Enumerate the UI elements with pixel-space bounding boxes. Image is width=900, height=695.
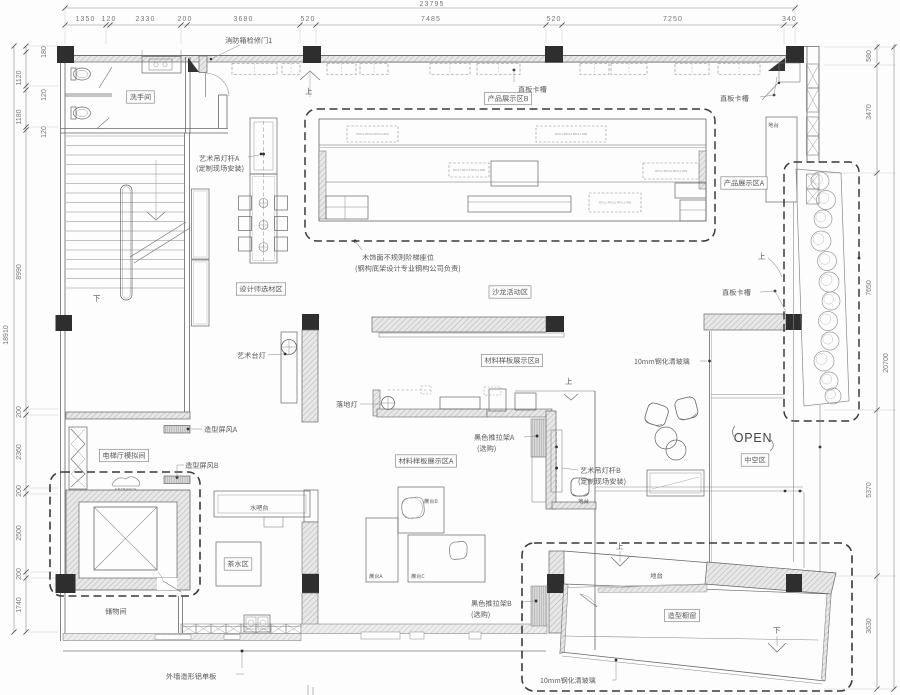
planter window dashed boundary xyxy=(784,162,859,421)
label 茶水区 xyxy=(224,558,252,570)
glass line B 10mm xyxy=(709,331,711,562)
leader island steps note xyxy=(354,240,357,243)
label 10mm钢化清玻璃 right xyxy=(635,358,690,364)
exterior finish band right xyxy=(301,624,547,634)
label 10mm钢化清玻璃 bottom xyxy=(541,677,596,683)
label 落地灯 xyxy=(336,401,357,408)
pedestal 展台A xyxy=(366,518,398,582)
label 外墙造形铝单板 xyxy=(166,673,216,680)
void line D xyxy=(819,405,821,573)
dimension chain right xyxy=(876,44,878,689)
void horizontal lines lower xyxy=(595,486,803,488)
bottom tick marks xyxy=(307,685,309,695)
plants xyxy=(811,172,829,190)
screen zigzag xyxy=(69,427,87,489)
label 造型屏风A xyxy=(204,426,237,433)
island shelf line 1 xyxy=(319,144,706,146)
stair center stringer xyxy=(121,185,133,300)
exterior skin line xyxy=(63,650,546,652)
svg-text:18910: 18910 xyxy=(3,325,10,345)
pedestal 展台C xyxy=(408,535,485,582)
armchair 1 xyxy=(643,401,670,428)
door slots right band xyxy=(361,632,400,639)
svg-text:3470: 3470 xyxy=(866,104,873,120)
svg-text:180: 180 xyxy=(41,46,48,58)
label 艺术吊灯杆A xyxy=(199,155,239,162)
leader 造型屏风B xyxy=(176,476,179,479)
sofa dashed cushions xyxy=(421,386,431,394)
window inner lines xyxy=(563,636,818,640)
svg-text:XPCL1 RPCL2 RPCL1 RPE: XPCL1 RPCL2 RPCL1 RPE xyxy=(453,168,486,172)
label 洗手间 xyxy=(127,91,155,103)
sofa tables xyxy=(440,397,480,409)
round tables xyxy=(655,427,677,449)
svg-text:340: 340 xyxy=(782,16,797,23)
column M2 xyxy=(302,314,319,330)
toilet 2 xyxy=(74,107,91,119)
label 造型橱窗 xyxy=(665,609,700,621)
label 木饰面不规则阶梯座位 xyxy=(362,254,433,261)
wall below stair xyxy=(66,412,190,419)
island platform outline xyxy=(319,119,706,221)
column M1 xyxy=(56,315,73,331)
floor lamp xyxy=(382,397,395,410)
label 设计师选材区 xyxy=(236,283,285,295)
stair treads xyxy=(66,135,184,137)
label 地台 small xyxy=(578,498,588,503)
label 下 stair xyxy=(93,295,100,301)
planter bed tilted xyxy=(796,169,849,406)
door swing window xyxy=(580,594,597,607)
svg-text:5370: 5370 xyxy=(866,482,873,498)
svg-text:120: 120 xyxy=(41,126,48,138)
svg-text:1740: 1740 xyxy=(16,597,23,613)
svg-text:23795: 23795 xyxy=(420,1,445,8)
counter below wall xyxy=(379,333,564,337)
label 材料样板展示区B xyxy=(481,354,542,366)
white rect below rack A xyxy=(532,457,546,502)
label 沙龙活动区 xyxy=(489,286,531,298)
label 地台 window xyxy=(650,573,662,579)
svg-text:2360: 2360 xyxy=(16,444,23,460)
exterior finish band left xyxy=(63,634,301,641)
pendant light track B xyxy=(551,430,562,492)
wall left exterior xyxy=(60,46,62,641)
up arrow window xyxy=(616,543,623,549)
shaped screen B xyxy=(164,476,190,484)
wall top exterior xyxy=(65,56,786,63)
tea table xyxy=(216,542,261,586)
corner recess xyxy=(779,63,800,82)
svg-text:1350: 1350 xyxy=(76,16,96,23)
wall middle segment B xyxy=(372,317,546,332)
toilet 1 xyxy=(74,68,91,80)
dimension chain top xyxy=(65,24,795,26)
up arrow at top wall xyxy=(300,71,320,80)
label 艺术台灯 xyxy=(237,352,265,359)
label 材料样板展示区A xyxy=(396,455,457,467)
stall door 2 xyxy=(97,118,109,129)
column B3 xyxy=(547,574,564,593)
door slots left band xyxy=(155,635,191,640)
svg-text:8990: 8990 xyxy=(16,264,23,280)
designer table xyxy=(250,174,277,263)
elevator door gap xyxy=(157,578,177,590)
washroom partition wall vertical xyxy=(185,57,187,133)
svg-text:XPCL1 RPCL2 RPCL1 RPE: XPCL1 RPCL2 RPCL1 RPE xyxy=(555,132,588,136)
platform 地台 right xyxy=(766,117,797,202)
leader 直板卡槽 3 xyxy=(774,290,777,293)
up arrow near wall C xyxy=(758,253,765,259)
extension lines right xyxy=(824,46,896,48)
dimension line total 20700 xyxy=(893,44,895,689)
svg-text:520: 520 xyxy=(301,16,316,23)
storage wall xyxy=(178,596,180,633)
svg-text:7485: 7485 xyxy=(421,16,441,23)
armchair 2 xyxy=(674,396,700,422)
dimension line total 23795 xyxy=(65,7,795,9)
island hatch right xyxy=(699,151,706,189)
column B1 xyxy=(56,574,76,593)
water bar counter xyxy=(214,491,310,517)
leader 直板卡槽 1 xyxy=(513,69,516,72)
label 黑色推拉架A xyxy=(474,434,514,441)
double sink xyxy=(244,615,270,632)
label 中空区 xyxy=(741,454,769,466)
display wall L bottom xyxy=(552,502,596,509)
display band with X boxes xyxy=(181,624,196,634)
label 下 window xyxy=(773,627,780,633)
wall below column B2 xyxy=(302,593,318,633)
art lamp stand xyxy=(281,332,297,403)
dimension chain left xyxy=(25,46,27,632)
fire box xyxy=(199,56,207,73)
water cooler xyxy=(264,517,283,527)
label 产品展示区A xyxy=(721,177,767,189)
leader 艺术台灯 xyxy=(268,354,283,355)
svg-text:3630: 3630 xyxy=(866,618,873,634)
column K3 xyxy=(545,46,563,63)
svg-text:200: 200 xyxy=(178,16,193,23)
window body xyxy=(560,584,831,681)
leader 落地灯 xyxy=(360,403,381,405)
platform thin hatch strip xyxy=(598,585,707,593)
svg-text:200: 200 xyxy=(16,406,23,418)
wall strip above column B2 xyxy=(304,490,318,522)
svg-text:7250: 7250 xyxy=(663,16,683,23)
label 产品展示区B xyxy=(485,92,532,104)
leader 艺术吊灯杆B xyxy=(562,468,578,470)
island low rects left xyxy=(326,196,368,219)
label 黑色推拉架B xyxy=(471,600,511,607)
leader 黑色推拉架A xyxy=(536,435,539,438)
column K4 xyxy=(786,46,804,63)
wall right exterior top xyxy=(806,46,808,163)
label 储物间 xyxy=(105,608,126,615)
black sliding rack B xyxy=(531,586,547,626)
entrance dashed boundary xyxy=(50,472,200,596)
art table lamp circle xyxy=(282,340,297,355)
display niches right wall xyxy=(807,64,820,88)
leader 直板卡槽 2 xyxy=(773,94,776,97)
column M3 xyxy=(546,316,564,332)
shelf rail line xyxy=(322,62,770,64)
chairs designer table xyxy=(239,196,252,210)
svg-text:120: 120 xyxy=(41,89,48,101)
void horizontal lines upper xyxy=(711,394,784,396)
svg-text:2500: 2500 xyxy=(16,525,23,541)
island display box center xyxy=(491,161,538,186)
leader 外墙造形铝单板 xyxy=(241,652,243,668)
washroom stall wall xyxy=(65,93,112,95)
leader 黑色推拉架B xyxy=(535,600,538,603)
label 直板卡槽 2 xyxy=(720,95,748,102)
elevator door leaf xyxy=(163,581,181,592)
plates on table xyxy=(259,199,268,208)
exhibition island dashed boundary xyxy=(305,109,715,241)
column B4 xyxy=(786,574,802,592)
fire hose cabinet dark triangle at corner xyxy=(768,58,785,71)
glass line A with up arrow xyxy=(515,390,595,392)
column K2 xyxy=(303,46,321,63)
stall door 1 xyxy=(99,67,112,88)
washroom inner wall xyxy=(218,95,220,129)
entrance canopy xyxy=(112,477,140,486)
svg-text:2330: 2330 xyxy=(136,16,156,23)
island hatch left xyxy=(319,151,326,219)
label 电梯厅模拟间 xyxy=(99,449,148,461)
label 艺术吊灯杆B xyxy=(580,467,620,474)
svg-text:200: 200 xyxy=(16,568,23,580)
label 上 top xyxy=(305,88,312,94)
svg-text:520: 520 xyxy=(547,16,562,23)
platform hatched part xyxy=(705,562,836,594)
platform top slant line xyxy=(564,551,836,573)
svg-text:20700: 20700 xyxy=(883,353,890,373)
stair break line xyxy=(130,222,186,257)
svg-text:7650: 7650 xyxy=(866,280,873,296)
svg-text:1120: 1120 xyxy=(16,70,23,85)
leader fire cabinet door xyxy=(213,45,240,58)
wall stub below column M2 xyxy=(302,330,318,422)
shaped screen A xyxy=(164,426,190,434)
wall panels beside stair xyxy=(192,189,210,259)
bottom dashed boundary xyxy=(522,543,852,691)
svg-text:1180: 1180 xyxy=(16,109,23,124)
svg-text:580: 580 xyxy=(866,50,873,62)
wall middle segment C xyxy=(704,314,786,330)
void line E xyxy=(803,492,805,568)
display cabinets row top wall xyxy=(232,64,277,75)
label 直板卡槽 1 xyxy=(518,86,546,93)
column B2 xyxy=(302,574,319,593)
stair left wall xyxy=(184,133,186,419)
label 消防箱检修门1 xyxy=(225,37,271,44)
column M4 xyxy=(786,314,802,330)
washroom entry door swing xyxy=(205,73,207,97)
svg-text:120: 120 xyxy=(102,16,117,23)
island low rect long xyxy=(468,196,571,212)
black sliding rack A xyxy=(531,419,546,457)
extension lines top xyxy=(64,27,66,44)
svg-text:200: 200 xyxy=(16,485,23,497)
leader 造型屏风A xyxy=(187,428,190,431)
long sofa xyxy=(647,470,704,496)
svg-text:3680: 3680 xyxy=(234,16,254,23)
leader 艺术吊灯杆A xyxy=(260,153,263,156)
pendant light track A xyxy=(250,118,277,174)
label 直板卡槽 3 xyxy=(722,289,750,296)
island shelf line 2 xyxy=(326,181,706,183)
label 造型屏风B xyxy=(185,462,218,469)
platform lower edge xyxy=(564,584,831,594)
chair near rack xyxy=(571,478,589,496)
storage floor line xyxy=(183,626,303,628)
shelf stack 产品展示区A xyxy=(675,183,706,198)
svg-text:OPEN: OPEN xyxy=(734,431,773,445)
window side wall xyxy=(549,551,564,633)
svg-text:XPCL1 RPCL2 RPCL1 RPE: XPCL1 RPCL2 RPCL1 RPE xyxy=(356,132,389,136)
svg-text:XPCL1 RPCL2 RPCL1 RPE: XPCL1 RPCL2 RPCL1 RPE xyxy=(599,201,632,205)
stair down arrow xyxy=(147,212,165,220)
void line C xyxy=(793,202,795,562)
sofa group frame xyxy=(373,390,380,416)
elevator car xyxy=(94,507,157,570)
pedestal 展台B xyxy=(398,487,444,533)
island sample boxes dashed xyxy=(347,126,398,142)
svg-text:XPCL1 RPCL2 RPCL1 RPE: XPCL1 RPCL2 RPCL1 RPE xyxy=(655,169,688,173)
extension lines left xyxy=(28,45,58,47)
washroom wall horizontal xyxy=(61,128,229,130)
column K1 xyxy=(57,46,74,63)
elevator room walls xyxy=(66,490,190,590)
vanity counter xyxy=(142,57,181,74)
dimension line total 18910 xyxy=(13,46,15,632)
display wall L vertical xyxy=(546,411,556,509)
